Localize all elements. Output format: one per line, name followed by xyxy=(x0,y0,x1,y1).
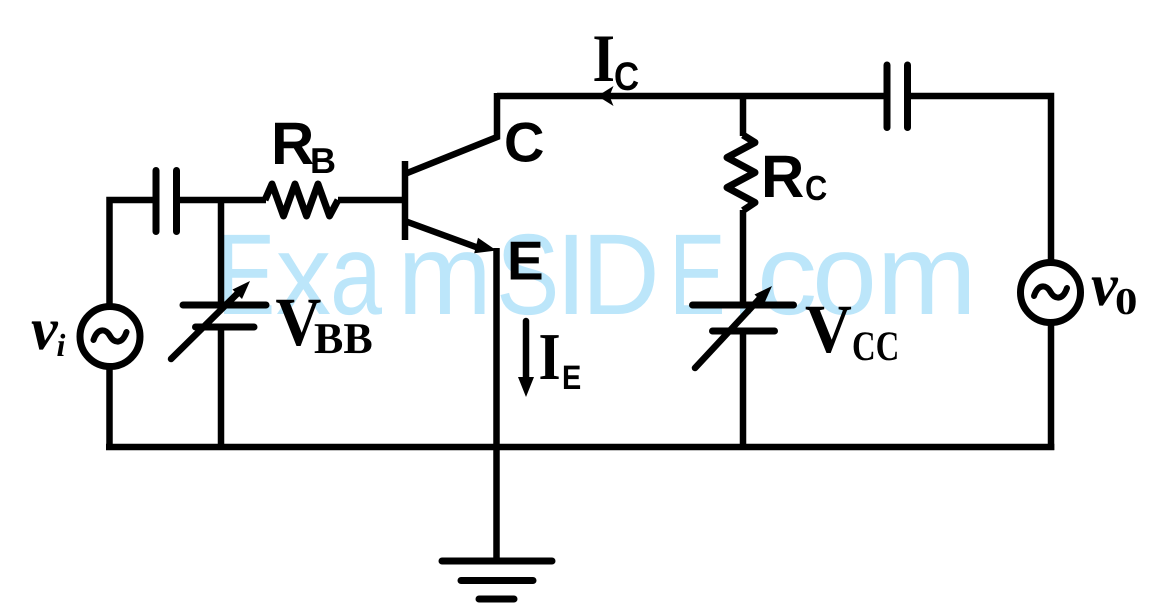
wire: input top corner to input capacitor xyxy=(110,200,154,306)
wire: top net, collector corner to output capacitor xyxy=(497,93,888,100)
wire: emitter down to ground xyxy=(493,248,500,561)
watermark ExamSIDE.com xyxy=(224,234,969,315)
wire: V_CC to bottom rail xyxy=(740,331,747,450)
transistor Q1 collector lead xyxy=(404,93,498,175)
battery V_BB negative plate xyxy=(196,324,255,331)
transistor Q1 emitter lead xyxy=(404,221,481,249)
wire: vi to bottom rail xyxy=(106,366,113,450)
wire: v0 to bottom rail xyxy=(1048,322,1055,450)
wire: R_C to V_CC xyxy=(740,210,747,306)
label R_B xyxy=(275,123,313,164)
wire: R_B to base xyxy=(338,197,403,204)
wire: input capacitor to base node xyxy=(177,197,267,204)
wire: bottom rail (common net) xyxy=(106,444,1054,451)
AC source vi xyxy=(80,307,140,367)
label R_C xyxy=(765,156,803,197)
V_CC variable arrow xyxy=(695,295,763,368)
capacitor: input coupling xyxy=(156,171,177,232)
label v_i xyxy=(32,321,59,349)
label v_0 xyxy=(1092,277,1119,305)
transistor Q1 base bar xyxy=(402,161,409,240)
battery V_BB positive plate xyxy=(183,302,266,309)
label I_C xyxy=(594,37,613,82)
capacitor: output coupling xyxy=(887,65,908,128)
battery V_CC positive plate xyxy=(693,302,794,309)
ground xyxy=(442,561,552,599)
wire: output capacitor to v0 branch xyxy=(908,96,1052,262)
AC source v0 xyxy=(1021,263,1081,323)
wire: V_BB to bottom rail xyxy=(218,327,225,450)
battery V_CC negative plate xyxy=(713,328,775,335)
resistor R_B xyxy=(265,184,338,216)
arrow I_E xyxy=(523,321,530,380)
label E (emitter) xyxy=(511,242,542,280)
label C (collector) xyxy=(506,122,543,162)
transistor Q1 emitter arrowhead xyxy=(474,238,496,254)
label V_BB xyxy=(276,300,320,346)
resistor R_C xyxy=(727,135,755,211)
wire: base node down to V_BB xyxy=(218,200,225,306)
label I_E xyxy=(540,335,558,379)
wire: top net down to R_C xyxy=(740,96,747,136)
label V_CC xyxy=(806,307,851,353)
arrow I_C direction on top wire xyxy=(598,86,614,106)
V_BB variable arrow xyxy=(171,290,241,359)
